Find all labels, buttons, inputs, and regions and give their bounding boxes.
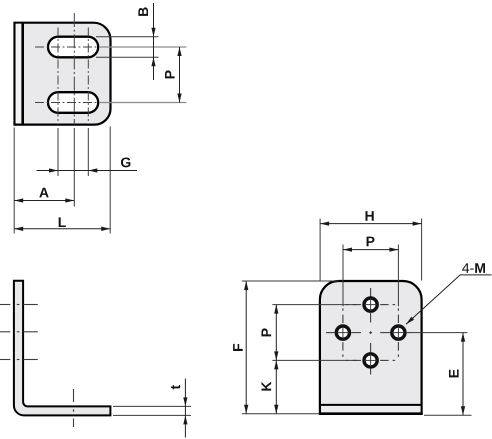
t bottom extension — [113, 414, 191, 416]
dimension F — [233, 281, 246, 414]
dimension K — [261, 360, 276, 413]
side view row mark 3 — [0, 359, 38, 361]
side view row mark 1 — [0, 304, 38, 306]
P left extension bottom — [272, 359, 356, 361]
dimension E — [449, 333, 463, 416]
H extension left — [319, 219, 321, 281]
dimension H — [320, 211, 422, 224]
dimension B — [138, 3, 155, 80]
slot hole 2 — [48, 92, 98, 113]
slot centerline column left — [57, 28, 59, 125]
dimension t — [171, 379, 188, 438]
t top extension — [113, 405, 191, 407]
main vertical axis — [73, 13, 75, 125]
extension line left column below plate — [57, 128, 59, 176]
P left extension top — [272, 304, 356, 306]
F extension bottom — [242, 413, 320, 415]
4-M label leader — [406, 263, 492, 324]
top view plate — [320, 281, 422, 414]
hole column centerline — [370, 288, 372, 375]
slot1 bottom edge extension — [96, 56, 159, 58]
tapped hole bottom — [364, 354, 377, 367]
bend strip (front view) — [16, 23, 23, 125]
dimension L — [14, 217, 110, 228]
dimension A — [14, 188, 74, 201]
slot centerline column right — [87, 28, 89, 125]
hole row centerline — [326, 332, 413, 334]
front view plate — [15, 23, 111, 125]
slot1 top edge extension — [96, 36, 159, 38]
extension right edge below plate — [109, 127, 111, 234]
extension left edge below plate — [13, 128, 15, 234]
side view row mark 2 — [0, 331, 38, 333]
slot 1 row centerline — [35, 46, 187, 48]
dimension P top — [343, 237, 398, 250]
side view L-profile — [14, 281, 111, 416]
hole right crosshair stubs — [397, 308, 399, 357]
extension line right column below plate — [87, 128, 89, 176]
H extension right — [421, 219, 423, 281]
tapped hole left — [336, 326, 349, 339]
hole top crosshair stubs — [346, 304, 395, 306]
P top extension right — [397, 245, 399, 307]
dimension P (slots pitch) — [165, 47, 180, 103]
slot 2 row centerline — [35, 102, 187, 104]
hole bottom crosshair stubs — [346, 359, 395, 361]
top view bend band — [319, 405, 423, 414]
hole left crosshair stubs — [342, 308, 344, 357]
F extension top — [242, 280, 339, 282]
tapped hole top — [364, 298, 377, 311]
extension main axis below plate — [73, 128, 75, 207]
dimension G — [37, 157, 138, 172]
E extension top — [413, 332, 468, 334]
E extension bottom — [424, 414, 472, 416]
dimension P left — [261, 305, 276, 361]
slot hole 1 — [48, 37, 98, 58]
side view axis mark — [73, 389, 75, 427]
P top extension left — [342, 245, 344, 307]
tapped hole right — [392, 326, 405, 339]
